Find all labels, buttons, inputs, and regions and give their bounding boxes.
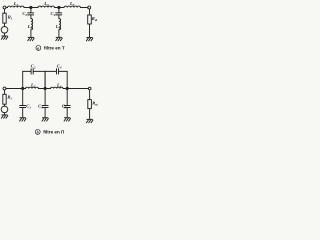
resistor R1 bottom [3, 94, 6, 104]
node junction 3 bottom [66, 87, 68, 89]
inductor L5 [64, 6, 81, 7]
wire [89, 90, 91, 100]
ground [1, 115, 7, 118]
wire [44, 108, 46, 118]
svg-text:filtre en Π: filtre en Π [43, 130, 65, 135]
node input terminal bottom [3, 87, 6, 90]
wire [4, 9, 6, 13]
node input terminal top [3, 6, 6, 9]
wire [89, 24, 91, 38]
wire [6, 88, 26, 90]
caption a circle [36, 45, 41, 50]
wire loop 2 top left [45, 70, 56, 72]
wire [6, 7, 8, 9]
wire loop 1 top right [33, 70, 45, 72]
wire [89, 9, 91, 15]
wire [30, 15, 32, 18]
resistor Rut bottom [88, 100, 92, 109]
wire [63, 88, 89, 90]
inductor L4 top circuit [59, 19, 61, 30]
ground [1, 36, 7, 39]
wire [55, 7, 65, 9]
resistor R1 top [3, 13, 6, 23]
caption b circle [35, 129, 40, 134]
node output terminal top [88, 6, 91, 9]
node output terminal bottom [88, 87, 91, 90]
inductor L3 [38, 6, 54, 7]
node junction 1 bottom [22, 87, 24, 89]
wire loop 2 top right [59, 70, 68, 72]
wire [30, 30, 32, 38]
wire [4, 104, 6, 106]
source G bottom [1, 106, 8, 113]
capacitor C5 [64, 106, 70, 108]
ground [42, 118, 48, 121]
wire [66, 108, 68, 118]
wire loop 2 left [44, 71, 46, 88]
wire loop 1 top left [23, 70, 31, 72]
capacitor C1 [20, 106, 26, 108]
wire [89, 109, 91, 120]
wire [24, 7, 38, 9]
wire [44, 89, 46, 106]
source G top [1, 27, 8, 34]
svg-text:a: a [37, 46, 39, 51]
ground [64, 118, 70, 121]
capacitor C2 top circuit [28, 13, 34, 15]
ground [86, 38, 92, 41]
inductor L2 bottom circuit [26, 87, 39, 88]
ground [20, 118, 26, 121]
wire [58, 30, 60, 38]
inductor L4 bottom circuit [51, 87, 63, 88]
wire [22, 108, 24, 118]
node junction 2 top [58, 6, 60, 8]
inductor L2 top circuit [31, 19, 33, 30]
ground [28, 37, 34, 40]
node junction 1 top [30, 6, 32, 8]
wire [39, 88, 51, 90]
capacitor C2 bottom circuit [31, 69, 33, 74]
wire [81, 7, 88, 9]
wire [30, 8, 32, 13]
wire [4, 33, 6, 36]
wire [22, 89, 24, 106]
inductor L1 [8, 6, 24, 7]
wire [58, 15, 60, 18]
capacitor C3 [42, 106, 48, 108]
capacitor C4 bottom circuit [57, 69, 59, 74]
ground [87, 119, 93, 122]
node junction 2 bottom [44, 87, 46, 89]
wire loop 1 left [22, 71, 24, 88]
wire [4, 113, 6, 115]
ground [56, 37, 62, 40]
wire loop 1 right [44, 71, 46, 88]
wire [66, 89, 68, 106]
svg-text:filtre en T: filtre en T [44, 46, 65, 51]
resistor Rut top [88, 15, 92, 24]
capacitor C4 top circuit [56, 13, 62, 15]
svg-text:b: b [37, 130, 39, 135]
wire loop 2 right [66, 71, 68, 88]
wire [4, 23, 6, 26]
wire [58, 8, 60, 13]
wire [4, 90, 6, 94]
